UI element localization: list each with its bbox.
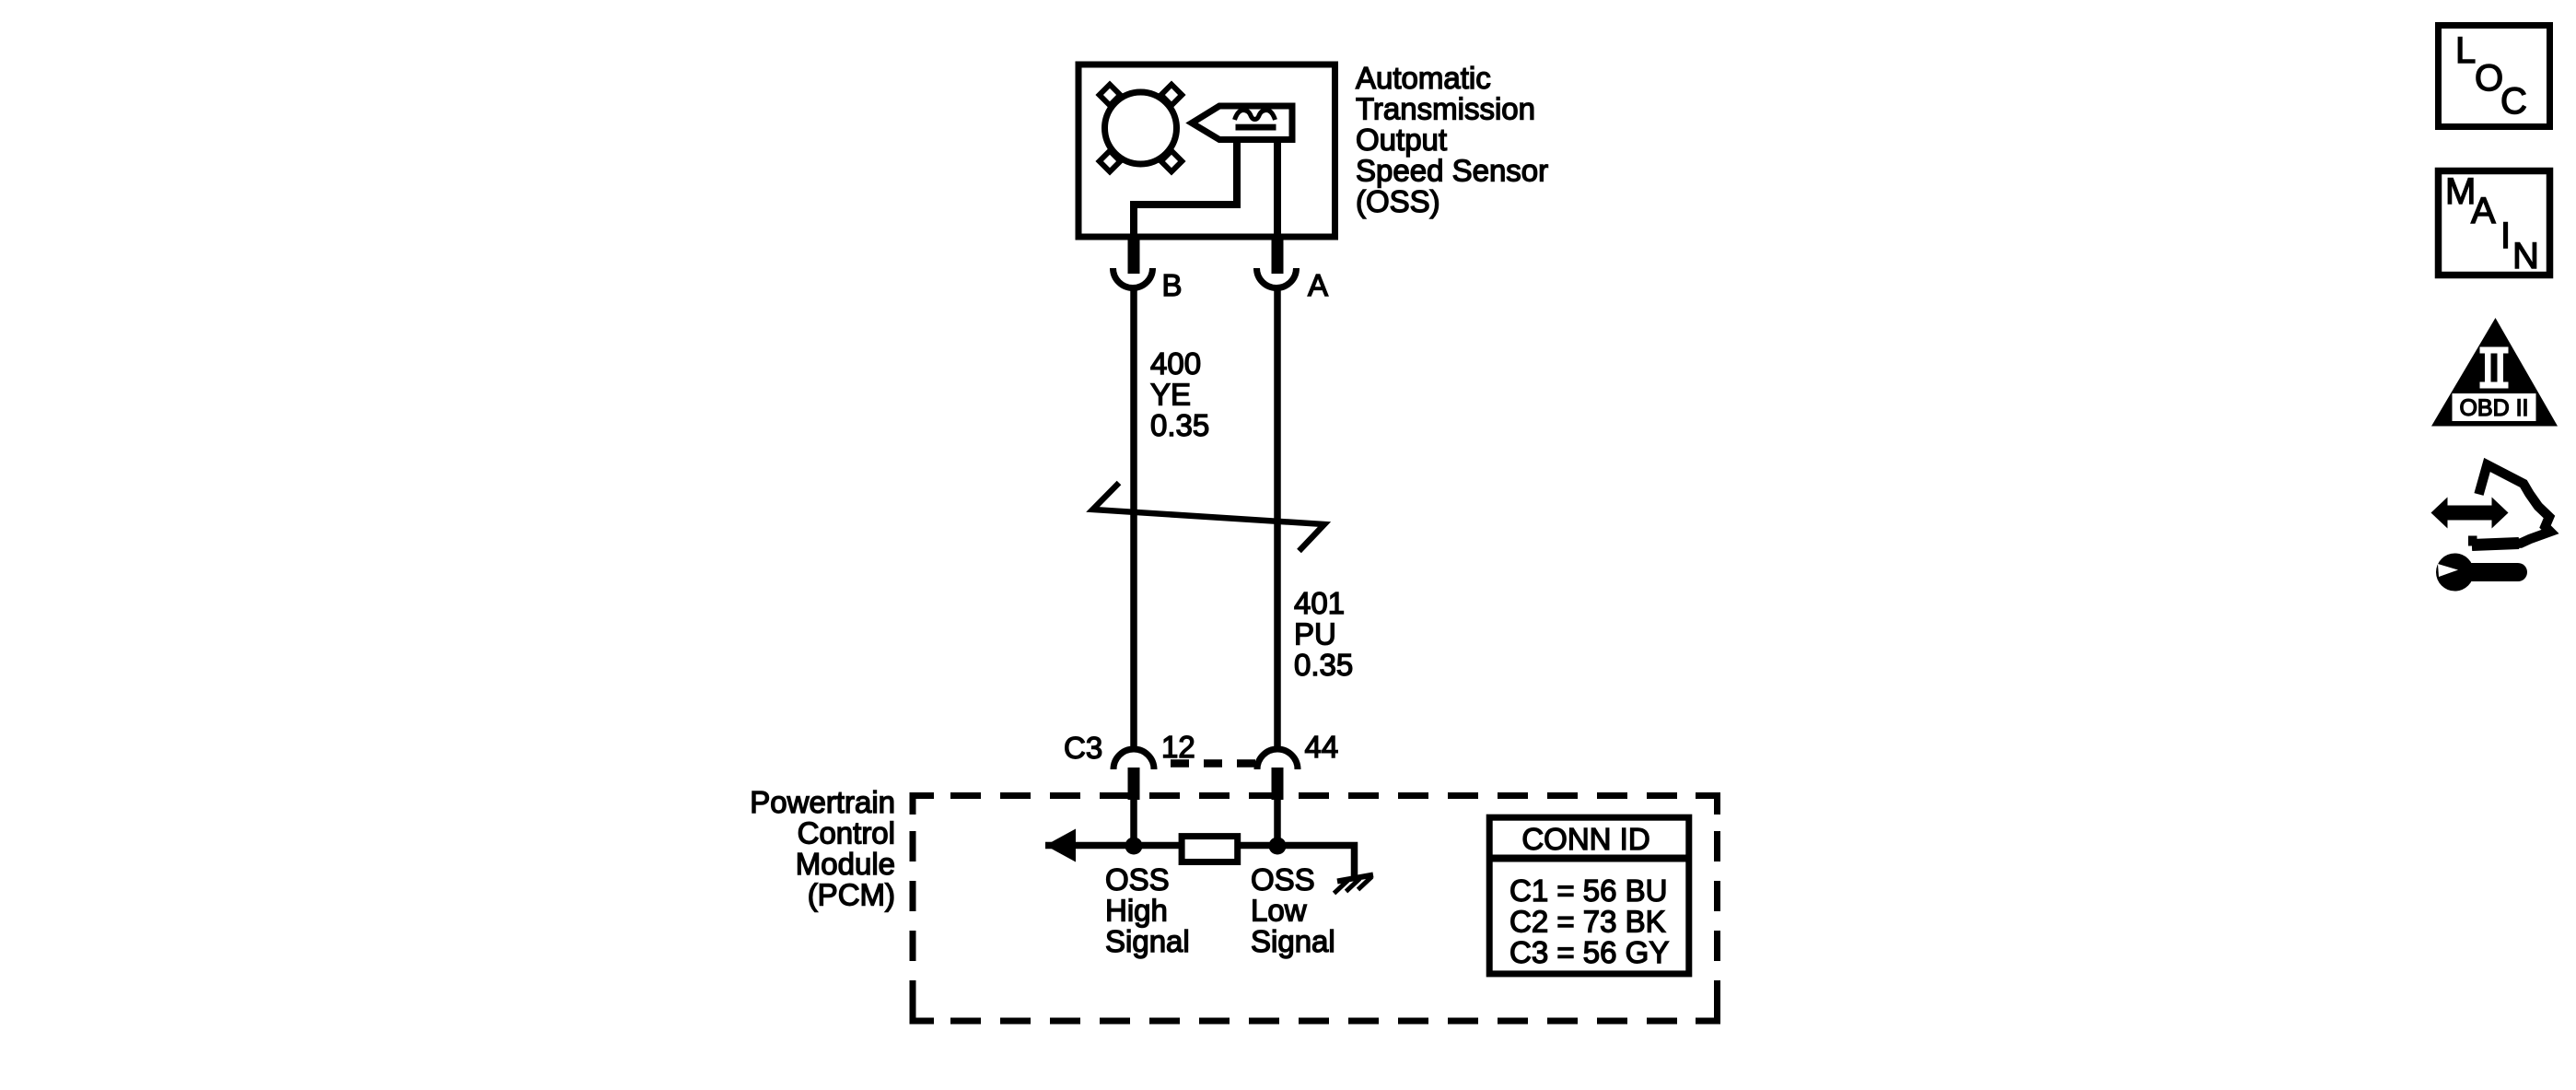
OBD II triangle [2431,318,2558,427]
svg-text:N: N [2512,236,2539,276]
pin stub 12 [1128,768,1140,800]
twisted pair symbol [1093,483,1325,551]
PCM dashed box left edge [910,815,916,1002]
connector B cup [1113,268,1153,288]
svg-text:Control: Control [798,816,895,850]
internal signal line [1045,846,1355,877]
tone wheel diamond lower-right [1161,151,1183,172]
PCM dashed box corner BL [913,1002,934,1021]
wire 401 PU [1274,290,1281,747]
wire pin 44 to junction [1274,798,1281,845]
OBD II column glyph [2480,347,2509,389]
svg-text:44: 44 [1305,730,1339,764]
pickup bar [1236,124,1276,131]
svg-text:C3: C3 [1064,731,1102,765]
svg-text:OSS: OSS [1105,862,1170,897]
svg-text:L: L [2455,30,2476,71]
svg-text:I: I [2500,216,2511,256]
ground symbol [1335,875,1374,894]
svg-text:C2 = 73 BK: C2 = 73 BK [1509,905,1666,939]
svg-text:PU: PU [1294,617,1336,651]
LOC icon box [2439,26,2550,127]
svg-text:Speed Sensor: Speed Sensor [1356,154,1548,188]
svg-text:Low: Low [1251,894,1307,928]
svg-text:(OSS): (OSS) [1356,184,1440,218]
svg-text:C3 = 56 GY: C3 = 56 GY [1509,935,1669,969]
arrowhead OSS high [1045,829,1076,862]
PCM dashed box bottom edge [934,1018,1696,1025]
svg-text:B: B [1162,268,1183,302]
PCM dashed box top edge [934,792,1696,799]
svg-text:A: A [1308,268,1328,302]
svg-text:OSS: OSS [1251,862,1315,897]
junction node 12 [1125,838,1143,855]
svg-text:A: A [2471,191,2496,231]
PCM dashed box corner BR [1696,1002,1718,1021]
sensor pickup pentagon [1192,106,1292,140]
svg-text:CONN ID: CONN ID [1521,822,1649,856]
svg-text:C: C [2500,81,2527,122]
svg-text:OBD II: OBD II [2459,395,2528,421]
tone wheel diamond upper-right [1161,85,1183,106]
svg-text:0.35: 0.35 [1150,408,1209,442]
PCM dashed box corner TL [913,796,934,815]
svg-text:Output: Output [1356,123,1447,157]
svg-text:(PCM): (PCM) [808,878,895,912]
repair icon bar end tab [2468,536,2477,546]
connector A cup [1257,268,1297,288]
svg-text:O: O [2475,58,2503,99]
resistor [1182,837,1238,862]
svg-text:YE: YE [1150,378,1191,412]
svg-text:Module: Module [796,847,895,881]
svg-text:400: 400 [1150,346,1201,381]
MAIN icon box [2439,171,2550,275]
svg-text:C1 = 56 BU: C1 = 56 BU [1509,873,1668,908]
OBD II band [2453,393,2536,421]
pin stub A [1272,238,1284,274]
svg-text:Transmission: Transmission [1356,92,1535,126]
pin stub B [1128,238,1140,274]
svg-text:0.35: 0.35 [1294,648,1353,682]
svg-text:12: 12 [1161,730,1195,764]
connector C3 dome pin 12 [1113,749,1154,769]
wire B inside sensor [1134,136,1237,241]
svg-text:Signal: Signal [1105,924,1190,958]
connector dome pin 44 [1257,749,1298,769]
tone wheel diamond lower-left [1100,151,1121,172]
wire A inside sensor [1274,136,1281,241]
svg-text:High: High [1105,894,1168,928]
repair icon wrench [2436,554,2518,592]
pin stub 44 [1272,768,1284,800]
repair icon double arrow [2431,498,2509,529]
dashed connector gap line [1162,759,1258,768]
CONN ID table box [1489,817,1689,974]
tone wheel ring [1105,92,1177,164]
svg-text:Signal: Signal [1251,924,1335,958]
CONN ID header line [1486,855,1692,862]
wire 400 YE [1130,290,1137,747]
tone wheel diamond upper-left [1100,85,1121,106]
PCM dashed box corner TR [1696,796,1718,815]
pickup squiggle [1235,111,1276,121]
svg-text:Powertrain: Powertrain [750,785,895,819]
sensor OSS box [1078,64,1335,237]
svg-text:401: 401 [1294,586,1345,620]
repair icon connector outline [2472,465,2550,545]
svg-text:Automatic: Automatic [1356,61,1491,95]
wire pin 12 to junction [1130,798,1137,845]
PCM dashed box right edge [1714,815,1720,1002]
junction node 44 [1269,838,1287,855]
